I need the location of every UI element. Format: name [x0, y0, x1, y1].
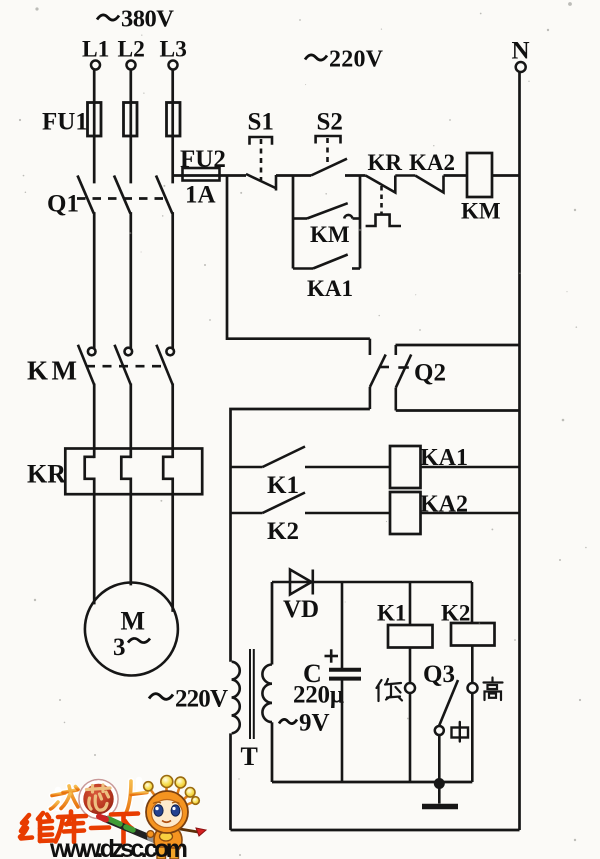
- watermark magnifier glass with chip char: [79, 780, 118, 819]
- ground symbol: [438, 784, 441, 804]
- svg-text:M: M: [121, 607, 146, 636]
- terminal high (gao): [468, 683, 478, 693]
- label ~380V: [97, 15, 119, 20]
- transformer core: [249, 649, 251, 739]
- wire S2 to KR contact: [345, 174, 366, 177]
- wire L1 phase vertical: [93, 70, 96, 182]
- wire middle branch down: [438, 735, 441, 783]
- svg-text:380V: 380V: [121, 6, 174, 33]
- svg-text:N: N: [512, 38, 530, 65]
- svg-text:KM: KM: [310, 222, 350, 247]
- transformer T secondary winding: [279, 719, 297, 723]
- transformer T primary winding: [149, 694, 173, 700]
- svg-text:KR: KR: [368, 150, 403, 175]
- svg-text:VD: VD: [283, 596, 319, 623]
- wire high branch down: [471, 693, 474, 782]
- inner supply box left edge: [271, 582, 274, 782]
- svg-text:KR: KR: [27, 460, 66, 489]
- wire inner box bottom rail: [272, 781, 472, 784]
- svg-text:Q2: Q2: [414, 360, 446, 387]
- terminal middle (zhong): [435, 726, 444, 735]
- watermark char zhao (find) orange: [51, 786, 79, 809]
- svg-text:L1: L1: [82, 37, 109, 63]
- svg-text:L2: L2: [118, 37, 145, 63]
- wire S1 to S2: [276, 174, 311, 177]
- node self-hold branch right vertical: [359, 176, 362, 269]
- svg-text:Q1: Q1: [47, 191, 79, 218]
- svg-text:220V: 220V: [175, 686, 228, 713]
- wire branch down from FU2 line to lower control loop: [227, 176, 370, 339]
- label ~220V: [305, 55, 327, 60]
- wire lower loop right horizontal: [396, 344, 520, 347]
- svg-text:9V: 9V: [299, 710, 330, 737]
- wire N vertical down right side: [518, 72, 521, 830]
- switch Q3 blade: [439, 680, 458, 727]
- svg-text:T: T: [241, 742, 258, 771]
- svg-text:FU1: FU1: [42, 109, 88, 136]
- svg-text:220μ: 220μ: [293, 682, 344, 709]
- svg-text:KM: KM: [27, 356, 77, 386]
- svg-text:Q3: Q3: [423, 661, 455, 688]
- node junction dot: [434, 778, 445, 789]
- svg-text:3: 3: [113, 634, 126, 661]
- svg-text:S1: S1: [248, 109, 274, 136]
- node self-hold branch left vertical: [292, 176, 295, 269]
- svg-text:KM: KM: [461, 199, 501, 224]
- wire L2 phase vertical: [129, 70, 132, 182]
- svg-text:220V: 220V: [329, 47, 384, 73]
- svg-text:KA1: KA1: [307, 276, 353, 301]
- svg-text:KA2: KA2: [409, 150, 455, 175]
- label low chinese char: [377, 679, 403, 701]
- label high chinese char: [484, 678, 503, 701]
- wire low branch down: [409, 693, 412, 782]
- watermark mascot head: [146, 791, 188, 833]
- motor M 3-phase: [85, 583, 178, 676]
- wire L3 phase vertical: [171, 70, 174, 182]
- svg-text:L3: L3: [160, 37, 187, 63]
- watermark mascot antenna stalks: [150, 786, 194, 805]
- label middle chinese char: [452, 722, 469, 742]
- watermark mascot body: [147, 825, 206, 859]
- wire from L3 to control circuit through FU2: [173, 174, 246, 177]
- svg-text:www.dzsc.com: www.dzsc.com: [49, 835, 188, 859]
- watermark char pian (chip) orange: [126, 780, 148, 814]
- svg-text:K1: K1: [377, 601, 406, 626]
- watermark mascot antenna balls: [144, 776, 200, 805]
- svg-text:S2: S2: [317, 109, 343, 136]
- svg-text:K1: K1: [267, 472, 299, 499]
- svg-text:1A: 1A: [185, 182, 216, 209]
- watermark red text wei ku yi xia: [20, 812, 138, 843]
- outer control box: [231, 409, 520, 830]
- watermark pen tool: [99, 817, 160, 843]
- svg-text:K2: K2: [267, 518, 299, 545]
- terminal low (di): [405, 683, 415, 693]
